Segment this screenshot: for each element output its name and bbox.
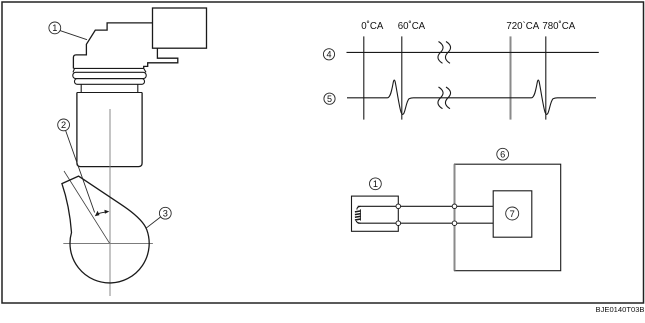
sensor connector block <box>153 8 207 48</box>
callout 6 (ECU) <box>497 148 509 160</box>
vane axis line <box>64 171 110 243</box>
tick 60 CA <box>401 36 403 119</box>
svg-text:5: 5 <box>327 94 332 104</box>
tick 720 CA (gray) <box>510 36 512 119</box>
connector node bottom-right <box>452 221 457 226</box>
svg-text:720`CA: 720`CA <box>506 21 539 32</box>
svg-text:6: 6 <box>500 149 505 159</box>
flange ring band 2 <box>75 79 145 85</box>
svg-text:0˚CA: 0˚CA <box>361 21 384 32</box>
rotor (comma-shaped cam) <box>62 176 149 283</box>
svg-text:60˚CA: 60˚CA <box>398 21 426 32</box>
callout 2 (vane) <box>58 119 95 213</box>
svg-text:7: 7 <box>510 209 515 220</box>
callout 1 (sensor, schematic) <box>370 178 382 190</box>
connector node top-right <box>452 204 457 209</box>
break mark on line 5 <box>438 87 451 109</box>
sensor barrel <box>77 93 142 167</box>
signal line 4 <box>347 51 599 53</box>
barrel shoulder <box>77 92 142 94</box>
callout 3 (rotor) <box>146 207 171 228</box>
axis centerline (vertical) <box>109 109 111 296</box>
svg-text:2: 2 <box>61 120 66 130</box>
sensor flange top <box>73 67 143 69</box>
tick 0 CA <box>363 36 365 119</box>
inner module box <box>493 191 532 237</box>
neck right <box>137 84 139 92</box>
ECU box <box>455 164 561 271</box>
sensor head outline (right side tab) <box>144 48 178 68</box>
sensor head outline (left side) <box>73 23 152 69</box>
wire top <box>358 205 494 207</box>
callout 5 <box>324 93 335 104</box>
svg-text:780˚CA: 780˚CA <box>542 21 575 32</box>
ECU box left edge (gray) <box>454 164 456 271</box>
svg-text:3: 3 <box>163 208 168 218</box>
callout 7 (inner module) <box>506 207 519 220</box>
connector node bottom-left <box>396 221 401 226</box>
pickup coil <box>355 206 361 223</box>
wire bottom <box>358 222 494 224</box>
svg-text:1: 1 <box>373 179 378 189</box>
neck left <box>80 84 82 92</box>
callout 4 <box>323 49 334 60</box>
connector node top-left <box>396 204 401 209</box>
tick 780 CA <box>545 36 547 119</box>
flange ring band 1 <box>73 72 146 78</box>
sensor box <box>352 196 399 231</box>
angle arrow <box>95 210 110 217</box>
flange flare right <box>144 68 146 72</box>
svg-text:1: 1 <box>52 23 57 33</box>
break mark on line 4 <box>438 42 451 64</box>
flange flare left <box>73 68 75 72</box>
svg-text:4: 4 <box>326 49 331 59</box>
rotor horizontal centerline <box>63 243 153 245</box>
signal line 5 (waveform) <box>347 80 596 114</box>
callout 1 (sensor, left drawing) <box>49 22 87 40</box>
svg-text:BJE0140T03B: BJE0140T03B <box>596 305 645 314</box>
